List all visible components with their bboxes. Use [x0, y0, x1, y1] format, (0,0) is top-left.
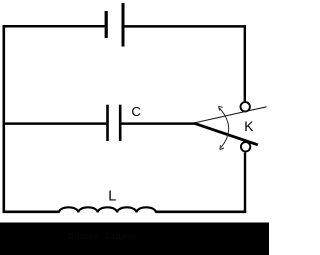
caption bar (black) — [0, 223, 269, 255]
wire: middle wire left segment — [3, 122, 107, 125]
inductor L coil (5 humps) — [59, 207, 156, 212]
svg-text:C: C — [131, 104, 141, 119]
switch K alternate position line (thin, to upper contact) — [194, 107, 267, 123]
switch K lever (thick, to lower contact) — [194, 123, 258, 145]
wire: right vertical wire lower segment — [244, 152, 246, 213]
wire: middle wire right segment to switch pivot — [121, 122, 195, 125]
wire: right vertical wire upper segment — [244, 25, 246, 102]
wire: top wire right segment — [123, 25, 246, 28]
switch K motion arc with arrowheads — [219, 106, 229, 149]
switch K lower contact circle — [241, 142, 250, 151]
svg-text:K: K — [244, 119, 253, 134]
wire: top wire left segment — [3, 25, 107, 28]
svg-text:L: L — [108, 189, 116, 205]
switch K upper contact circle — [241, 102, 250, 111]
battery GB1 short plate — [105, 11, 108, 38]
capacitor C right plate — [119, 105, 122, 141]
battery GB1 long plate — [122, 3, 125, 47]
svg-text:Физика. Задача: Физика. Задача — [67, 231, 137, 242]
capacitor C left plate — [106, 105, 109, 141]
wire: bottom wire left segment — [3, 211, 60, 214]
wire: bottom wire right segment — [156, 211, 247, 214]
wire: left vertical wire — [2, 25, 5, 213]
